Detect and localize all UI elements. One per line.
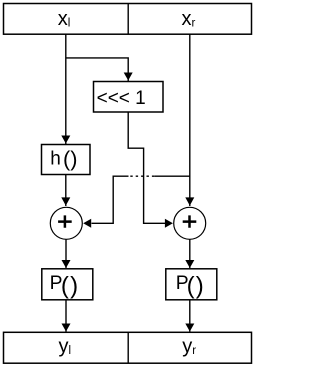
- arrow into left adder right: [83, 219, 91, 228]
- wire x_r branch solid right part: [154, 175, 190, 177]
- arrow into shift box: [124, 73, 133, 81]
- svg-text:<<< 1: <<< 1: [97, 88, 146, 109]
- wire h() output: [65, 175, 67, 207]
- wire branch to shift box: [66, 58, 128, 81]
- arrow into right P(): [185, 260, 194, 268]
- input register box: [4, 4, 252, 35]
- arrow into output box right: [185, 324, 194, 332]
- wire x_r branch solid left part: [92, 176, 129, 223]
- output register box: [4, 332, 252, 363]
- svg-text:h: h: [50, 148, 61, 169]
- arrow into left adder top: [61, 197, 70, 205]
- wire x_r down to right adder: [189, 34, 191, 206]
- wire right adder output: [189, 239, 191, 268]
- wire left P() output: [65, 300, 67, 332]
- svg-text:(): (): [61, 272, 79, 299]
- wire shift output jog: [128, 112, 165, 223]
- left P() box: [42, 269, 93, 300]
- arrow into h(): [61, 136, 70, 144]
- left adder plus: [58, 215, 72, 227]
- wire x_l down to h(): [65, 34, 67, 144]
- arrow into right adder top: [185, 197, 194, 205]
- output register divider: [127, 332, 129, 363]
- svg-text:(): (): [63, 146, 77, 171]
- left adder circle: [50, 207, 82, 239]
- wire right P() output: [189, 300, 191, 332]
- input register divider: [127, 4, 129, 35]
- wire crossing dashed part: [129, 175, 155, 177]
- wire left adder output: [65, 239, 67, 268]
- right adder plus: [183, 215, 197, 227]
- right adder circle: [174, 207, 206, 239]
- svg-text:(): (): [187, 272, 205, 299]
- arrow into output box left: [62, 324, 71, 332]
- arrow into left P(): [62, 260, 71, 268]
- shift box <<< 1: [94, 82, 164, 113]
- right P() box: [166, 269, 217, 300]
- h() box: [42, 145, 91, 175]
- arrow into right adder left: [165, 219, 173, 228]
